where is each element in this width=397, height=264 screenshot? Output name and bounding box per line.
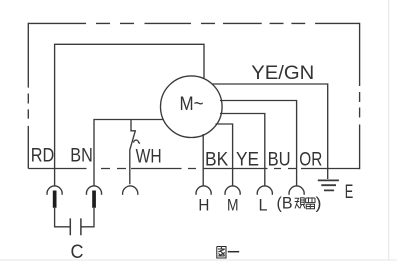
- capacitor C1 plates: [70, 218, 81, 235]
- connector arc B: [289, 186, 304, 195]
- svg-text:OR: OR: [299, 149, 322, 170]
- wire YE: motor right, down to terminal M: [216, 124, 233, 186]
- terminal stub RD: [53, 191, 57, 208]
- enclosure chain border right side: [359, 23, 361, 170]
- enclosure dashed boundary bottom side: [28, 168, 359, 170]
- capacitor C1 leads: [55, 208, 94, 227]
- svg-text:YE: YE: [236, 149, 259, 170]
- wire WH branch with thermal kink: [130, 120, 136, 185]
- terminal stub BN: [92, 191, 96, 208]
- connector arc M: [225, 186, 240, 195]
- wire BU: motor right, down to terminal L: [220, 114, 265, 186]
- svg-text:(B: (B: [277, 194, 293, 213]
- wire OR: motor right, down to terminal B: [220, 101, 297, 186]
- faint page border right: [388, 0, 390, 260]
- svg-text:H: H: [198, 196, 209, 215]
- svg-text:M~: M~: [180, 94, 204, 115]
- enclosure chain border top side: [28, 22, 359, 24]
- earth ground E bars: [318, 180, 339, 190]
- svg-text:RD: RD: [31, 146, 55, 167]
- caption 图 glyph: [217, 247, 226, 259]
- svg-text:E: E: [345, 182, 354, 203]
- wire YE/GN: motor right to earth: [212, 84, 328, 179]
- label 预 (reserved) glyph: [295, 198, 305, 209]
- thermal kink bump on WH wire: [134, 140, 140, 143]
- motor M1 circle: [161, 76, 223, 138]
- svg-text:M: M: [227, 196, 239, 215]
- enclosure chain border left side: [27, 23, 29, 169]
- connector arc RD: [47, 186, 62, 195]
- svg-text:YE/GN: YE/GN: [251, 63, 314, 84]
- label 留 (reserved) glyph: [306, 197, 315, 209]
- svg-text:): ): [316, 194, 322, 213]
- wire RD: motor top, up and left, down to terminal: [55, 44, 204, 186]
- svg-text:L: L: [259, 196, 268, 215]
- wire BN: motor left, left and down to terminal: [94, 120, 164, 186]
- svg-text:BK: BK: [205, 149, 228, 170]
- svg-text:WH: WH: [136, 147, 162, 168]
- svg-text:BN: BN: [70, 146, 93, 167]
- connector arc WH: [123, 186, 138, 195]
- connector arc BN: [86, 186, 101, 195]
- svg-text:BU: BU: [268, 149, 291, 170]
- caption 一 glyph: [228, 251, 239, 253]
- faint page border bottom: [0, 259, 397, 261]
- wire BK: motor bottom, down to terminal H: [202, 134, 204, 186]
- connector arc H: [196, 186, 211, 195]
- connector arc L: [257, 186, 272, 195]
